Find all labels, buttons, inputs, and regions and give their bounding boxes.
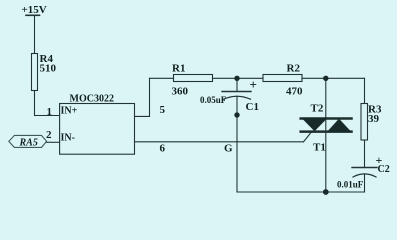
net flag RA5 [9,135,47,147]
op-to coupler U1 MOC3022 box [60,104,135,155]
capacitor C2 plates [352,168,377,178]
svg-text:R1: R1 [172,63,185,75]
svg-text:C1: C1 [246,101,259,113]
svg-text:MOC3022: MOC3022 [70,94,114,105]
svg-text:510: 510 [40,63,57,75]
svg-text:+: + [376,153,383,167]
wire RA5 to pin2 [47,141,60,143]
svg-text:IN+: IN+ [61,106,78,117]
svg-text:+15V: +15V [22,4,47,16]
junction dot R2/T2 [323,76,328,81]
svg-text:T1: T1 [313,142,326,154]
wire R4 to pin1 [35,91,60,116]
svg-text:0.01uF: 0.01uF [337,180,364,190]
svg-text:5: 5 [160,104,166,116]
wire R3 to C2 [364,140,366,168]
wire +15V to R4 [34,15,36,53]
resistor R2 [263,75,302,82]
svg-text:RA5: RA5 [19,138,38,149]
wire right vertical to R3 [364,78,366,103]
capacitor C1 top lead [236,78,238,91]
resistor R3 [361,104,368,141]
svg-text:1: 1 [47,106,53,118]
power +15V symbol [26,14,40,16]
junction dot bottom rail / T1 [323,189,329,195]
svg-text:G: G [224,143,233,155]
triac right triangle [327,119,352,133]
svg-text:R2: R2 [287,63,301,75]
wire R1 to R2 [213,77,264,79]
junction dot R1/R2/C1 [234,76,239,81]
capacitor C1 plates [222,92,251,100]
wire C2 to bottom rail [364,174,366,192]
wire R2 to right corner [302,77,365,79]
svg-text:0.05uF: 0.05uF [200,95,227,105]
svg-text:470: 470 [286,86,303,98]
svg-text:IN-: IN- [61,133,75,144]
svg-text:T2: T2 [311,103,324,115]
wire top rail to R1 [150,77,174,79]
svg-text:+: + [250,77,257,92]
triac left triangle [301,118,328,131]
svg-text:360: 360 [172,86,189,98]
wire T2 vertical through triac [325,78,327,192]
svg-text:2: 2 [46,129,52,141]
wire C1 to bottom rail [236,96,238,192]
junction dot below C1 [234,112,239,117]
resistor R1 [174,75,213,82]
triac T top bar [301,117,352,120]
bottom rail wire [237,191,365,193]
svg-text:6: 6 [160,143,166,155]
wire pin6 / gate G [135,141,304,143]
resistor R4 [32,54,38,91]
gate diagonal to triac [304,132,312,142]
triac T bottom bar [301,130,352,133]
wire pin5 to top rail [135,78,150,116]
svg-text:39: 39 [368,113,380,125]
